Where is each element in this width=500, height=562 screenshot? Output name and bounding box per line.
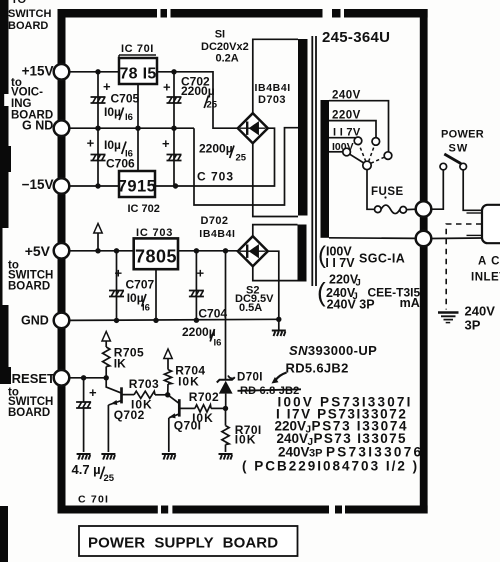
label CEE-T315 ratings [317, 273, 421, 312]
label SN393000-UP [289, 343, 377, 358]
junction GND2/IC703 stem [153, 318, 158, 323]
svg-text:+: + [162, 136, 170, 151]
svg-text:C707: C707 [126, 278, 155, 292]
wire D702 bottom to transformer S2 bottom [253, 266, 298, 280]
capacitor C704 branch wire [195, 251, 197, 320]
transformer secondary winding S2 [298, 225, 307, 282]
svg-text:I0K: I0K [235, 433, 257, 447]
node -15V [22, 177, 54, 192]
svg-text:78 I5: 78 I5 [119, 66, 156, 83]
svg-text:+5V: +5V [25, 243, 51, 259]
transformer secondary winding S1 [298, 39, 308, 216]
label POWER SW [441, 129, 484, 155]
wire IC701 output stem to GND rail and into IC702 [137, 84, 139, 171]
svg-text:PS73I33076: PS73I33076 [326, 445, 423, 460]
svg-text:mA: mA [400, 296, 420, 310]
svg-text:G ND: G ND [22, 119, 53, 133]
svg-text:I I 7V: I I 7V [325, 256, 355, 270]
svg-text:C706: C706 [106, 157, 135, 171]
svg-text:(: ( [317, 277, 326, 307]
label S1 DC20Vx2 0.2A [201, 29, 249, 65]
label IC 703 [136, 227, 173, 239]
wire feedthrough to AC inlet bottom terminal [431, 237, 482, 240]
label S2 DC9.5V 0.5A [235, 285, 274, 315]
svg-text:240V: 240V [332, 90, 361, 102]
node +5V [25, 243, 51, 259]
wire primary tap 117V [329, 137, 356, 139]
capacitor C704 [189, 266, 205, 297]
svg-text:R702: R702 [189, 390, 219, 404]
capacitor C707 branch wire [116, 251, 118, 321]
svg-text:INLET: INLET [471, 272, 500, 284]
svg-text:RD5.6JB2: RD5.6JB2 [286, 361, 349, 376]
svg-text:IC 70I: IC 70I [121, 43, 154, 55]
wire -15V rail [70, 185, 120, 187]
junction -15V/C703 [173, 183, 178, 188]
wire GND rail [70, 127, 195, 129]
selector wiper solid to 100V [350, 154, 364, 163]
junction +5V/C707 [114, 248, 119, 253]
svg-text:I0µ: I0µ [104, 138, 121, 152]
earth ground symbol [438, 313, 459, 323]
connector GND [54, 120, 70, 136]
board border left bar [58, 9, 66, 514]
ground symbol at Q701 emitter [162, 454, 176, 460]
regulator IC703 7805 [134, 238, 178, 269]
title box POWER SUPPLY BOARD [79, 526, 298, 556]
capacitor C702 [163, 80, 182, 104]
label RD6.8JB2 crossed out [238, 385, 302, 397]
wire fuse to border feedthrough [407, 208, 417, 210]
wire +5V rail [70, 250, 134, 252]
junction +5V/C704 [194, 248, 199, 253]
svg-text:GND: GND [21, 314, 49, 328]
label D701 [228, 372, 287, 384]
svg-text:I0K: I0K [192, 411, 214, 425]
wire GND rail 2 [70, 319, 279, 320]
svg-text:+: + [163, 80, 171, 95]
junction GND2/C707 [114, 318, 119, 323]
svg-text:7805: 7805 [135, 247, 177, 267]
label TO SWITCH BOARD top [8, 0, 51, 32]
selector contact 220V [372, 138, 380, 146]
svg-text:IB4B4I: IB4B4I [255, 82, 291, 94]
svg-text:+15V: +15V [22, 64, 54, 79]
junction GND/C705 [95, 126, 100, 131]
svg-text:BOARD: BOARD [8, 407, 50, 419]
board border right bar [420, 9, 428, 514]
svg-text:240V: 240V [465, 304, 496, 319]
svg-text:D702: D702 [201, 215, 229, 227]
capacitor C705 [91, 79, 112, 103]
wire +15V rail [70, 71, 120, 73]
label to VOICING BOARD [11, 77, 53, 122]
svg-text:220V: 220V [329, 273, 359, 287]
junction +5V/arrow [95, 248, 100, 253]
capacitor C701 [76, 385, 97, 408]
svg-text:BOARD: BOARD [8, 20, 48, 32]
regulator IC701 7815 [119, 58, 157, 84]
resistor R703 [134, 391, 168, 398]
wire switch right pin to AC inlet [463, 170, 482, 210]
capacitor C702 branch wire [173, 72, 175, 128]
label R704 10K [175, 364, 205, 389]
svg-text:220V: 220V [332, 110, 361, 122]
page edge strip [0, 0, 11, 562]
capacitor C705 branch wire [97, 72, 99, 128]
svg-text:3P: 3P [465, 318, 481, 333]
wire primary tap 220V [329, 121, 376, 138]
svg-text:C 703: C 703 [197, 170, 234, 184]
label C707 value [126, 278, 155, 314]
transistor Q701 [168, 395, 195, 452]
junction RESET/R705/Q702 [104, 375, 109, 380]
svg-text:+: + [89, 385, 97, 400]
board border top bar [58, 9, 428, 18]
ground symbol at R701 [219, 454, 233, 460]
node RESET [12, 371, 55, 386]
AC inlet connector body [482, 205, 500, 243]
svg-text:C 70I: C 70I [78, 494, 109, 506]
transistor Q702 [106, 378, 134, 452]
transformer core [312, 36, 316, 286]
wire primary bottom to feedthrough [329, 237, 416, 240]
label IC 701 [119, 43, 156, 58]
ground symbol at C701 [77, 454, 91, 460]
selector contact 240V [384, 152, 392, 160]
label part number 240VJ [277, 431, 407, 448]
svg-text:SN393000-UP: SN393000-UP [289, 343, 377, 358]
wire GND to transformer center tap [194, 128, 298, 205]
ground symbol at Q702 emitter [101, 454, 115, 460]
wire D703 top to transformer S1 top [253, 39, 298, 113]
junction Q701 collector node [165, 392, 170, 397]
node GND 2 [21, 314, 49, 328]
border feedthrough connector top [416, 201, 432, 217]
svg-text:R703: R703 [129, 377, 159, 391]
svg-text:D703: D703 [258, 94, 286, 106]
junction GND2/C704 [194, 318, 199, 323]
label part number 240V3P [278, 445, 423, 460]
svg-text:IK: IK [114, 357, 126, 371]
svg-text:25: 25 [207, 100, 218, 111]
+5V test point arrow [94, 224, 102, 251]
wire D702 top to transformer S2 top [253, 225, 298, 237]
selector common contact [363, 161, 371, 169]
svg-text:I0µ: I0µ [104, 105, 121, 119]
label IC 702 [128, 203, 160, 215]
capacitor C703 branch wire [173, 128, 175, 186]
svg-text:( PCB229I084703 I/2 ): ( PCB229I084703 I/2 ) [242, 459, 419, 474]
svg-text:RESET: RESET [12, 371, 55, 386]
resistor R704 [164, 359, 171, 395]
node +15V [22, 64, 54, 79]
svg-text:+: + [115, 266, 123, 281]
svg-text:0.2A: 0.2A [216, 53, 239, 65]
bridge rectifier D702 [238, 236, 268, 266]
connector +15V [54, 64, 70, 80]
svg-text:I6: I6 [142, 303, 150, 314]
connector GND2 [54, 313, 70, 329]
R705 pull-up arrow [102, 332, 110, 342]
label FUSE [371, 186, 404, 199]
junction RESET/C701 [81, 375, 86, 380]
label C701 value 4.7u/25 [72, 462, 115, 484]
selector dashed to 240V [371, 157, 384, 163]
bridge rectifier D703 [238, 113, 268, 143]
svg-text:4.7 µ: 4.7 µ [72, 462, 101, 477]
svg-text:I0K: I0K [131, 397, 153, 411]
selector dashed to 220V [369, 145, 375, 162]
svg-text:I6: I6 [214, 338, 222, 349]
label R701 10K [235, 423, 262, 447]
svg-text:POWER: POWER [441, 129, 484, 141]
svg-text:25: 25 [236, 153, 247, 164]
R704 pull-up arrow [164, 349, 172, 359]
svg-text:BOARD: BOARD [8, 281, 50, 293]
AC inlet spade terminal bottom [467, 234, 483, 236]
regulator IC702 7915 [118, 171, 157, 197]
svg-text:J: J [356, 278, 361, 289]
svg-text:7915: 7915 [118, 178, 157, 196]
svg-text:I6: I6 [125, 112, 133, 123]
label 1B4B41 D703 [255, 82, 291, 106]
wire primary tap 100V [329, 151, 343, 153]
svg-text:−15V: −15V [22, 177, 54, 192]
border feedthrough connector bottom [416, 231, 432, 247]
label R705 1K [114, 346, 144, 371]
label 240V 3P [465, 304, 496, 333]
svg-text:VOIC-: VOIC- [11, 87, 43, 99]
junction on +15V rail at C702 [171, 69, 176, 74]
selector dashed to 117V [359, 145, 366, 162]
zener diode D701 [217, 377, 235, 408]
selector contact 117V [354, 137, 362, 145]
resistor R705 [103, 341, 110, 378]
connector RESET [54, 370, 70, 386]
svg-text:POWER SUPPLY BOARD: POWER SUPPLY BOARD [88, 535, 278, 552]
svg-text:0.5A: 0.5A [239, 302, 262, 314]
svg-text:IC 702: IC 702 [128, 203, 160, 215]
svg-text:TO: TO [11, 0, 27, 6]
junction on +15V rail at C705 [95, 69, 100, 74]
switch S701 power sw [440, 154, 467, 170]
connector +5V [54, 243, 70, 259]
wire D702 right to ground [268, 251, 279, 329]
junction +5V/D701 feed [223, 248, 228, 253]
svg-text:DC20Vx2: DC20Vx2 [201, 41, 249, 53]
label C704 value [182, 307, 227, 349]
svg-text:+: + [197, 266, 205, 281]
wire D703 bottom to transformer S1 bottom [253, 143, 298, 216]
junction -15V/C706 [95, 183, 100, 188]
label C706 value [104, 138, 135, 171]
connector -15V [54, 178, 70, 194]
label 245-364U [322, 29, 390, 46]
wire IC703 ground stem [155, 269, 157, 320]
svg-text:SWITCH: SWITCH [8, 8, 51, 20]
svg-text:I0K: I0K [178, 375, 200, 389]
svg-text:+: + [87, 136, 95, 151]
capacitor C706 branch wire [97, 128, 99, 186]
transformer primary winding [321, 100, 330, 238]
board border bottom bar [58, 506, 428, 514]
label C703 value [197, 142, 247, 184]
svg-text:IB4B4I: IB4B4I [199, 228, 235, 240]
resistor R701 [222, 408, 229, 452]
junction GND/C702-C703 [171, 126, 176, 131]
node GND [22, 119, 53, 133]
capacitor C703 [162, 136, 182, 161]
svg-text:A C: A C [478, 256, 500, 268]
svg-text:D70I: D70I [237, 372, 263, 384]
svg-text:25: 25 [104, 473, 115, 484]
capacitor C701 branch wire [83, 378, 85, 402]
dashed protective earth wire [446, 224, 481, 310]
label AC INLET [471, 256, 500, 284]
svg-text:SW: SW [449, 143, 469, 155]
svg-text:C705: C705 [111, 92, 140, 106]
junction GND/IC701-IC702 stem [135, 126, 140, 131]
ground symbol at D702 [272, 331, 286, 337]
wire selector common to fuse [367, 170, 375, 210]
resistor R702 [195, 405, 226, 412]
svg-text:245-364U: 245-364U [322, 29, 390, 46]
svg-text:C704: C704 [198, 307, 227, 321]
capacitor C706 [87, 136, 106, 161]
selector contact 100V [343, 148, 351, 156]
svg-text:240V 3P: 240V 3P [327, 298, 375, 312]
svg-text:ING: ING [11, 98, 32, 110]
svg-text:2200µ: 2200µ [182, 325, 216, 339]
wire primary tap 240V [329, 101, 389, 152]
label SGC-1A ratings [318, 242, 405, 270]
AC inlet spade terminal top [467, 212, 483, 214]
label C705 value [104, 92, 140, 123]
label C702 value [181, 75, 218, 111]
label R703 10K [129, 377, 159, 411]
junction D702 ground / GND rail [276, 317, 281, 322]
capacitor C707 [109, 266, 124, 297]
fuse F701 [375, 205, 407, 214]
wire RESET rail [70, 377, 107, 379]
svg-text:2200µ: 2200µ [181, 84, 215, 98]
wire C701 to ground [83, 408, 85, 452]
svg-text:2200µ: 2200µ [199, 142, 233, 156]
wire +5V to zener D701 [225, 251, 227, 380]
label R702 10K [189, 390, 219, 425]
label part number 220VJ [275, 419, 409, 436]
svg-text:IC 703: IC 703 [136, 227, 173, 239]
label to SWITCH BOARD (+5V) [8, 260, 53, 293]
svg-text:SGC-IA: SGC-IA [359, 252, 405, 266]
svg-text:SI: SI [215, 29, 225, 41]
label D702 1B4B41 [199, 215, 235, 240]
svg-text:240V: 240V [278, 445, 310, 460]
label to SWITCH BOARD (reset) [8, 387, 53, 420]
junction D701/R702/R701 [223, 406, 228, 411]
svg-text:FUSE: FUSE [371, 186, 404, 198]
wire switch left pin to feedthrough [431, 170, 443, 209]
